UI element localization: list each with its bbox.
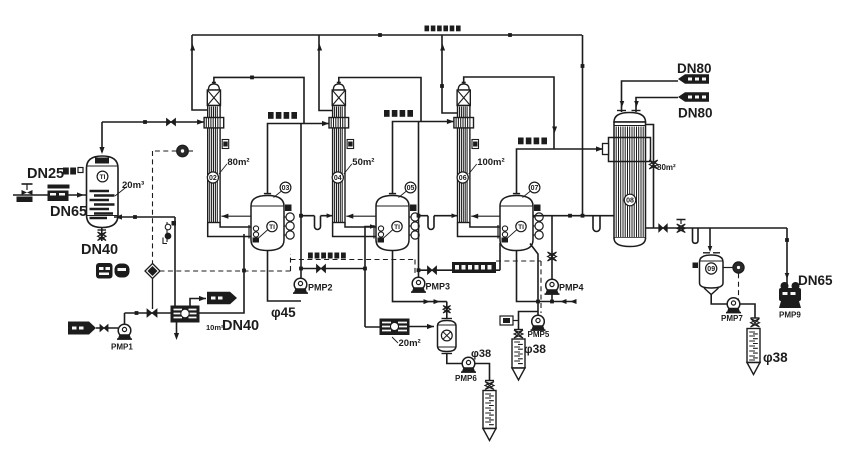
dashed instrument line: diamond to sep1 level bbox=[160, 254, 291, 271]
crystallizer vessel 05 bbox=[438, 319, 457, 354]
separator vessel V3 bbox=[500, 182, 543, 250]
wire: separator3 side outlet to PMP5 bbox=[530, 244, 538, 316]
pump PMP5 bbox=[528, 315, 550, 339]
wire: cooler outlet into crystallizer bbox=[409, 324, 434, 329]
wire: vent riser to effect 2 bbox=[317, 35, 332, 111]
wire: column-to-separator recirculation pipe bbox=[458, 214, 501, 239]
dashed instrument drop at receiver bbox=[738, 273, 740, 303]
separator vessel V2 bbox=[376, 182, 419, 250]
svg-text:TI: TI bbox=[100, 174, 106, 181]
dashed instrument line: PI to diamond bbox=[153, 151, 177, 264]
wire: balance hook with seal into column2 bbox=[301, 213, 333, 229]
wire: PMP7 discharge to tank3 bbox=[740, 304, 755, 318]
label 二次蒸汽 (effect3 inlet) bbox=[384, 110, 413, 117]
condenser jacket box bbox=[603, 138, 651, 162]
valve above tank1 bbox=[485, 381, 494, 390]
wire: condensate line to vacuum receiver bbox=[646, 220, 788, 233]
svg-text:DN80: DN80 bbox=[678, 106, 713, 121]
svg-text:φ38: φ38 bbox=[763, 350, 788, 365]
wire: column-to-separator recirculation pipe bbox=[333, 214, 376, 239]
valve above tank2 bbox=[514, 330, 523, 339]
wire: secondary vapour effect3 to condenser bbox=[517, 146, 604, 193]
wire: non-condensable gas vent manifold bbox=[192, 33, 582, 37]
wire: vacuum line to PMP9 bbox=[785, 228, 789, 289]
level gauge fitting cluster bbox=[163, 217, 176, 306]
svg-text:02: 02 bbox=[209, 175, 217, 182]
wire: secondary vapour effect1 to effect2 bbox=[268, 121, 330, 194]
control valve on feed line bbox=[17, 184, 33, 202]
wire: PMP2 suction U-leg from separator1 bbox=[268, 251, 302, 302]
drain hook bbox=[693, 228, 699, 243]
dark strainer pair bbox=[96, 263, 130, 279]
label DN65 at PMP9 bbox=[785, 273, 833, 288]
wire: HX-01 hot side from separator downcomer bbox=[199, 234, 259, 334]
label 不凝气排放管 bbox=[425, 26, 461, 32]
wire: transfer line effect1-to-effect2 bbox=[301, 265, 365, 273]
wire: crystallizer to PMP6 bbox=[447, 354, 462, 364]
wire: sep2 bottoms into crystallizer top bbox=[443, 302, 451, 319]
separator vessel V1 bbox=[251, 182, 294, 250]
pump PMP7 bbox=[721, 298, 743, 323]
svg-text:PMP5: PMP5 bbox=[528, 330, 550, 339]
receiver tank φ38 bbox=[483, 391, 496, 441]
receiver tank φ38 bbox=[512, 339, 546, 380]
svg-text:100m²: 100m² bbox=[477, 157, 504, 168]
label DN40 (strainer) bbox=[0, 0, 1, 1]
receiver tank φ38 bbox=[747, 329, 788, 375]
svg-text:PMP3: PMP3 bbox=[426, 282, 451, 292]
pump PMP2 bbox=[293, 278, 333, 293]
svg-text:20m³: 20m³ bbox=[122, 180, 144, 191]
svg-text:PMP7: PMP7 bbox=[721, 314, 743, 323]
wire: condenser bypass right side bbox=[646, 125, 677, 229]
svg-text:04: 04 bbox=[334, 175, 342, 182]
wire: secondary vapour effect2 to effect3 bbox=[393, 119, 454, 194]
svg-text:DN25: DN25 bbox=[27, 166, 64, 182]
svg-text:TI: TI bbox=[269, 224, 275, 231]
svg-text:06: 06 bbox=[459, 175, 467, 182]
wire: PMP1 suction/discharge bbox=[96, 309, 171, 328]
svg-text:PMP4: PMP4 bbox=[559, 283, 584, 293]
svg-text:DN65: DN65 bbox=[50, 204, 87, 220]
wire: PMP3 suction U-leg from separator2 bbox=[393, 251, 447, 305]
svg-text:07: 07 bbox=[531, 185, 539, 192]
wire: steam branch down into preheater bbox=[99, 122, 104, 154]
label DN65 bbox=[50, 204, 87, 220]
wire: vent riser to effect 1 bbox=[190, 35, 207, 110]
wire: cooling water outlet upper bbox=[620, 81, 678, 112]
wire: column-to-separator recirculation pipe bbox=[208, 214, 251, 239]
preheater vessel with coil bbox=[87, 156, 145, 228]
wire: riser into separator2 feed nozzle bbox=[363, 224, 380, 327]
label 二次蒸汽 (effect2 inlet) bbox=[268, 112, 297, 119]
label DN40 (preheater drain) bbox=[81, 242, 118, 258]
wire: PMP4 drain line bbox=[551, 292, 553, 302]
label 一二效倒料管 bbox=[308, 253, 346, 259]
evaporator heater column E3 bbox=[454, 83, 505, 223]
pump PMP4 bbox=[545, 279, 584, 294]
wire: manifold drop to hotwell line bbox=[581, 35, 585, 216]
flow meter block on feed line bbox=[48, 185, 70, 202]
barometric seal U-leg bbox=[593, 216, 600, 232]
wire: effect3 vent line bbox=[464, 77, 557, 149]
wire: HX-01 product outlet bbox=[190, 296, 206, 306]
diamond instrument symbol bbox=[145, 264, 160, 310]
svg-text:03: 03 bbox=[282, 185, 290, 192]
valve on PMP1 suction bbox=[100, 325, 108, 332]
svg-text:PMP6: PMP6 bbox=[455, 374, 477, 383]
instrument PI on steam riser bbox=[177, 145, 193, 157]
level gauge box at tank2 bbox=[500, 316, 519, 325]
DN80 banner upper bbox=[677, 61, 712, 84]
wire: cooling water outlet lower bbox=[634, 98, 678, 113]
wire: separator3 bottoms bbox=[517, 251, 577, 305]
svg-text:DN65: DN65 bbox=[798, 273, 833, 288]
wire: PMP4 suction drop bbox=[548, 216, 557, 279]
label 二次蒸汽 (condenser inlet) bbox=[518, 138, 547, 145]
svg-text:09: 09 bbox=[707, 266, 715, 273]
product outlet banner 出料 bbox=[207, 292, 237, 305]
svg-text:DN40: DN40 bbox=[222, 318, 259, 334]
condenser number circle 08 bbox=[624, 194, 636, 206]
svg-text:TI: TI bbox=[394, 224, 400, 231]
svg-text:08: 08 bbox=[626, 198, 634, 205]
wire: receiver to PMP7 bbox=[711, 295, 727, 305]
wire: separator3 right outlet to PMP4 bbox=[533, 214, 615, 218]
svg-text:DN80: DN80 bbox=[677, 61, 712, 76]
svg-text:DN40: DN40 bbox=[81, 242, 118, 258]
wire: effect2 vent line bbox=[339, 78, 421, 122]
svg-text:20m²: 20m² bbox=[399, 338, 421, 349]
svg-text:PMP2: PMP2 bbox=[308, 283, 333, 293]
heat exchanger HX-01 (10m²) bbox=[171, 306, 199, 322]
wire: raw feed line DN25 bbox=[13, 192, 87, 197]
wire: PMP5 discharge to tank2 bbox=[519, 312, 539, 331]
evaporator heater column E1 bbox=[204, 83, 249, 223]
wire: preheater bottom drain + valve bbox=[98, 228, 107, 242]
dashed instrument: sep3 to PMP5 bbox=[496, 261, 541, 313]
svg-text:05: 05 bbox=[407, 185, 415, 192]
valve above tank3 bbox=[751, 318, 760, 327]
wire: vent riser to effect 3 bbox=[440, 35, 457, 113]
vacuum receiver vessel 09 bbox=[693, 253, 724, 295]
svg-text:80m²: 80m² bbox=[227, 157, 249, 168]
heat exchanger HX-20m² (cooler) bbox=[380, 319, 421, 349]
DN80 banner lower bbox=[678, 92, 713, 120]
svg-text:PMP1: PMP1 bbox=[111, 343, 133, 352]
pump PMP6 bbox=[455, 357, 477, 383]
evaporator heater column E2 bbox=[329, 83, 374, 223]
svg-text:50m²: 50m² bbox=[352, 157, 374, 168]
label DN25 + 蒸汽 bbox=[27, 166, 83, 182]
label φ45 bbox=[271, 305, 296, 320]
wire: HX-01 drain bbox=[174, 322, 179, 340]
condenser (shell & tube) bbox=[614, 111, 646, 247]
svg-text:TI: TI bbox=[518, 224, 524, 231]
wire: PMP3 riser / balance line to column3 bbox=[417, 122, 421, 278]
label 三四效倒料管 (dark banner) bbox=[452, 262, 496, 273]
wire: raw steam line into effect 1 heater bbox=[102, 119, 204, 126]
instrument circle at receiver bbox=[723, 262, 744, 273]
svg-text:φ45: φ45 bbox=[271, 305, 296, 320]
condenser tube bundle hatch bbox=[616, 127, 645, 238]
wire: balance hook with seal into column3 bbox=[419, 213, 458, 229]
pump PMP3 bbox=[411, 277, 450, 292]
svg-text:PMP9: PMP9 bbox=[779, 311, 801, 320]
wire: PMP6 discharge to tank bbox=[471, 348, 491, 381]
pump PMP1 bbox=[111, 324, 133, 351]
wire: transfer line effect2-to-effect3 bbox=[419, 243, 501, 274]
wire: drop into vacuum receiver bbox=[708, 228, 713, 252]
svg-text:φ38: φ38 bbox=[524, 342, 546, 356]
svg-text:80m²: 80m² bbox=[657, 163, 676, 172]
wire: effect1 vent to manifold junction bbox=[214, 76, 304, 124]
wire: preheater outlet to gauge leg bbox=[114, 214, 175, 219]
vacuum pump PMP9 (dark) bbox=[779, 282, 801, 320]
feed inlet banner 进料 bbox=[68, 322, 96, 335]
wire: PMP2 riser / balance line to column2 bbox=[299, 124, 303, 279]
svg-text:φ38: φ38 bbox=[471, 348, 491, 360]
dashed instrument line: sep1/sep2 to PMP3 valve bbox=[291, 260, 416, 276]
